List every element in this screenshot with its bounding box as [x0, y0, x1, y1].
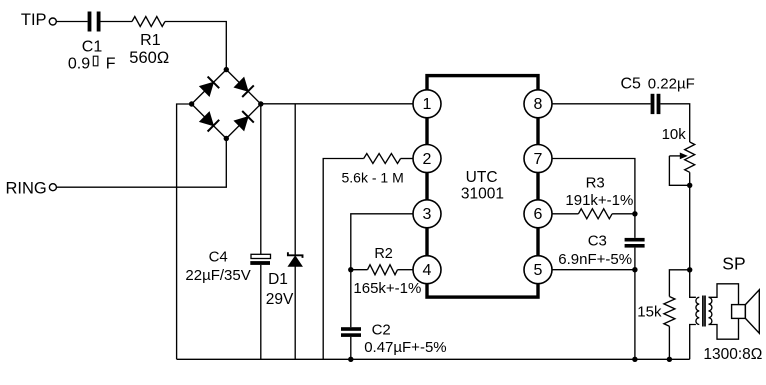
wire pin 2 to R 5.6k-1M	[401, 158, 414, 160]
terminal TIP	[49, 18, 56, 25]
svg-text:R1: R1	[140, 32, 161, 49]
svg-text:1300:8Ω: 1300:8Ω	[703, 346, 762, 363]
pin 2	[413, 145, 441, 173]
resistor R1	[132, 17, 165, 27]
junction transformer node	[687, 267, 692, 272]
svg-text:R3: R3	[586, 174, 605, 191]
svg-text:TIP: TIP	[21, 11, 47, 29]
wire RING to bridge bottom	[56, 139, 226, 188]
diode bridge upper-left	[200, 77, 219, 96]
wire R3 to node	[612, 213, 635, 215]
wire primary to rail	[690, 325, 696, 360]
svg-text:UTC: UTC	[466, 169, 498, 186]
wire pin 7 right	[552, 159, 635, 238]
svg-text:165k+-1%: 165k+-1%	[353, 280, 421, 297]
wire pin 5 to node	[552, 269, 635, 271]
junction bridge right	[258, 101, 263, 106]
junction 15k rail	[667, 357, 672, 362]
diode bridge lower-left	[200, 112, 219, 131]
svg-text:R2: R2	[374, 246, 393, 262]
diode bridge lower-right	[234, 111, 253, 130]
capacitor C3	[625, 238, 645, 248]
svg-text:0.22µF: 0.22µF	[648, 76, 695, 93]
svg-text:5: 5	[534, 262, 543, 279]
svg-text:RING: RING	[6, 180, 47, 198]
svg-text:1: 1	[423, 96, 432, 113]
svg-text:560Ω: 560Ω	[129, 49, 169, 67]
svg-text:15k: 15k	[637, 304, 662, 321]
zener diode D1	[288, 252, 303, 266]
terminal RING	[49, 184, 56, 191]
speaker SP	[732, 290, 760, 333]
svg-text:SP: SP	[722, 253, 745, 273]
transformer T1 secondary winding	[709, 297, 712, 324]
transformer T1 primary winding	[696, 297, 699, 324]
junction R3 node	[632, 211, 637, 216]
pin 8	[524, 90, 552, 118]
svg-text:6.9nF+-5%: 6.9nF+-5%	[558, 251, 632, 268]
svg-text:5.6k - 1 M: 5.6k - 1 M	[342, 170, 404, 186]
svg-text:C2: C2	[372, 321, 391, 338]
svg-text:0.47µF+-5%: 0.47µF+-5%	[364, 339, 446, 356]
wire bridge edge top-right	[226, 70, 260, 104]
wire C5 to pot	[660, 104, 689, 142]
capacitor C5	[651, 94, 661, 114]
svg-text:4: 4	[423, 262, 432, 279]
resistor R2	[368, 265, 398, 275]
svg-text:7: 7	[534, 151, 543, 168]
resistor 5.6k-1M	[364, 154, 401, 164]
junction bridge top	[224, 67, 229, 72]
wire D1 to rail	[294, 266, 296, 359]
wire node to R2	[351, 269, 368, 271]
op-amp U1 UTC 31001 body	[427, 76, 538, 298]
junction pot wiper	[687, 183, 692, 188]
wire bridge left to bottom rail	[177, 104, 192, 359]
svg-text:D1: D1	[268, 271, 288, 288]
value 0.9uF (mu shown as missing-glyph box)	[68, 56, 116, 73]
wire R1 to bridge top corner	[165, 22, 226, 70]
junction C2 rail	[348, 357, 353, 362]
pin 4	[413, 256, 441, 284]
svg-text:22µF/35V: 22µF/35V	[185, 267, 250, 284]
svg-text:F: F	[106, 56, 116, 73]
resistor 15k	[664, 297, 675, 327]
wire bridge edge bottom-right	[226, 104, 260, 139]
wire secondary to speaker loop	[709, 284, 739, 339]
potentiometer 10k	[669, 142, 694, 185]
wire pin 8 to C5	[552, 103, 651, 105]
junction bridge bottom	[224, 136, 229, 141]
capacitor C1	[88, 12, 101, 32]
svg-text:C4: C4	[209, 249, 228, 266]
wire C4 to rail	[260, 265, 262, 359]
wire node to transformer primary	[690, 270, 696, 298]
junction bridge left	[189, 101, 194, 106]
diode bridge upper-right	[234, 78, 253, 97]
capacitor C2	[341, 327, 361, 337]
wire bridge right to pin 1	[261, 103, 413, 105]
wire R2 to pin 4	[398, 269, 414, 271]
wire 15k to rail	[668, 326, 670, 359]
wire bridge right to C4	[260, 104, 262, 254]
svg-text:191k+-1%: 191k+-1%	[565, 192, 633, 209]
pin 6	[524, 200, 552, 228]
svg-text:8: 8	[534, 96, 543, 113]
wire bottom rail	[177, 358, 690, 360]
junction pin 5 node	[632, 267, 637, 272]
svg-text:3: 3	[423, 206, 432, 223]
transformer core	[703, 296, 705, 327]
svg-text:2: 2	[423, 151, 432, 168]
svg-text:C5: C5	[621, 76, 642, 93]
wire bridge edge left-bottom	[192, 104, 227, 139]
junction R2 node	[348, 267, 353, 272]
wire node to 15k	[669, 270, 689, 297]
wire bridge edge left-top	[192, 70, 227, 104]
wire TIP to C1	[56, 21, 87, 23]
wire pot to node	[689, 185, 691, 269]
junction C3 rail	[632, 357, 637, 362]
wire pin 3 left	[351, 214, 413, 327]
pin 5	[524, 256, 552, 284]
pin 3	[413, 200, 441, 228]
wire C3 to rail	[634, 248, 636, 360]
svg-text:31001: 31001	[461, 185, 504, 202]
svg-text:C1: C1	[82, 39, 103, 56]
wire C2 to rail	[350, 337, 352, 359]
pin 1	[413, 90, 441, 118]
svg-text:0.9: 0.9	[68, 56, 90, 73]
resistor R3	[578, 209, 612, 219]
svg-text:6: 6	[534, 206, 543, 223]
svg-text:10k: 10k	[662, 126, 687, 143]
wire top to D1	[294, 104, 296, 256]
wire R 5.6k-1M to rail	[323, 159, 364, 360]
svg-text:C3: C3	[588, 232, 607, 249]
pin 7	[524, 145, 552, 173]
wire pin 6 to R3	[552, 213, 578, 215]
capacitor C4 (polarized)	[250, 254, 270, 265]
svg-text:29V: 29V	[266, 291, 294, 308]
wire C1 to R1	[101, 21, 133, 23]
